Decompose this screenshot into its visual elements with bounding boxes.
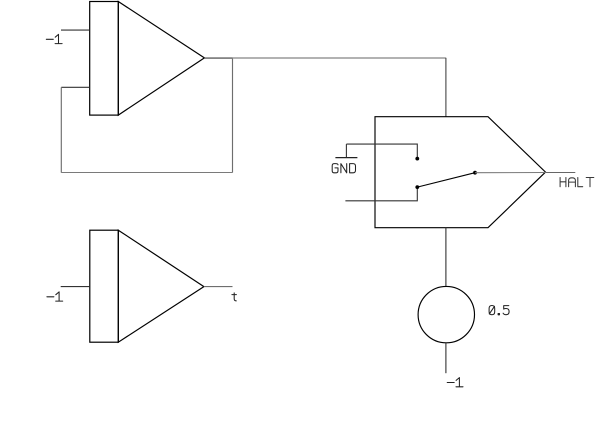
value label 0.5 (489, 306, 509, 315)
wire feedback bottom horizontal (61, 172, 232, 174)
wire switch U1 bottom to potentiometer P1 (445, 228, 447, 287)
wire lower contact input (345, 187, 417, 201)
ground bar (335, 157, 357, 159)
wire feedback left vertical (60, 87, 62, 172)
wire upper contact input (346, 144, 417, 158)
potentiometer P1 circle (418, 286, 474, 342)
comparator switch U1 body (375, 117, 546, 228)
wire feedback return into A1 (61, 86, 89, 88)
amplifier A2 body rectangle (90, 230, 119, 342)
node t label (232, 293, 237, 301)
switch arm (417, 173, 475, 187)
wire A2 output t (204, 286, 233, 288)
ground stem (345, 144, 347, 158)
wire HALT output (546, 172, 576, 174)
node switch arm pivot dot (473, 171, 477, 175)
node -1 (pot reference label) (447, 378, 463, 387)
wire input -1 to A2 (61, 286, 90, 288)
amplifier A2 triangle (118, 230, 204, 342)
wire potentiometer P1 to -1 (445, 343, 447, 373)
wire input -1 to A1 (61, 29, 90, 31)
wire feedback vertical from output (232, 58, 234, 173)
node lower contact dot (415, 185, 419, 189)
node HALT label (560, 178, 594, 187)
wire A1 output stub (204, 57, 232, 59)
ground label GND (332, 164, 355, 173)
wire down into switch U1 top (445, 58, 447, 117)
node upper contact dot (415, 157, 419, 161)
integrator A1 body rectangle (90, 2, 119, 116)
node -1 (input constant label) (46, 34, 62, 43)
node -1 (input constant label) (47, 292, 63, 301)
wire A1 output to switch U1 (233, 57, 446, 59)
wire arm to apex (475, 172, 546, 174)
integrator A1 triangle (118, 2, 204, 116)
